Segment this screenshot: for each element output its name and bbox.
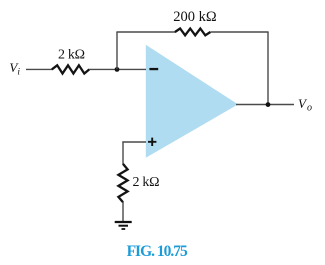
ground bbox=[115, 222, 132, 229]
wire feedback vertical from node A bbox=[116, 32, 118, 69]
op-amp minus sign bbox=[149, 68, 158, 70]
node A junction dot bbox=[115, 67, 120, 72]
wire R1 to op-amp minus input bbox=[89, 68, 146, 70]
wire op-amp plus input horizontal bbox=[122, 141, 146, 143]
op-amp U1 bbox=[146, 45, 238, 158]
wire feedback top right segment bbox=[210, 31, 268, 33]
wire plus input vertical down to R3 bbox=[122, 141, 124, 164]
resistor R2 200k bbox=[175, 29, 210, 36]
wire input Vi to R1 bbox=[26, 68, 53, 70]
svg-text:200 kΩ: 200 kΩ bbox=[173, 9, 217, 25]
wire output bbox=[236, 104, 294, 106]
svg-text:2 kΩ: 2 kΩ bbox=[133, 175, 160, 190]
wire feedback top left segment bbox=[116, 31, 176, 33]
svg-text:FIG. 10.75: FIG. 10.75 bbox=[127, 243, 188, 260]
node B output junction dot bbox=[266, 102, 271, 107]
wire feedback right vertical bbox=[267, 32, 269, 105]
svg-text:Vo: Vo bbox=[298, 96, 312, 114]
resistor R1 2k bbox=[52, 65, 90, 73]
wire R3 to ground bbox=[122, 202, 124, 222]
resistor R3 2k vertical bbox=[118, 164, 127, 202]
op-amp plus sign bbox=[148, 138, 156, 146]
svg-text:2 kΩ: 2 kΩ bbox=[58, 48, 85, 63]
svg-text:Vi: Vi bbox=[9, 60, 20, 78]
